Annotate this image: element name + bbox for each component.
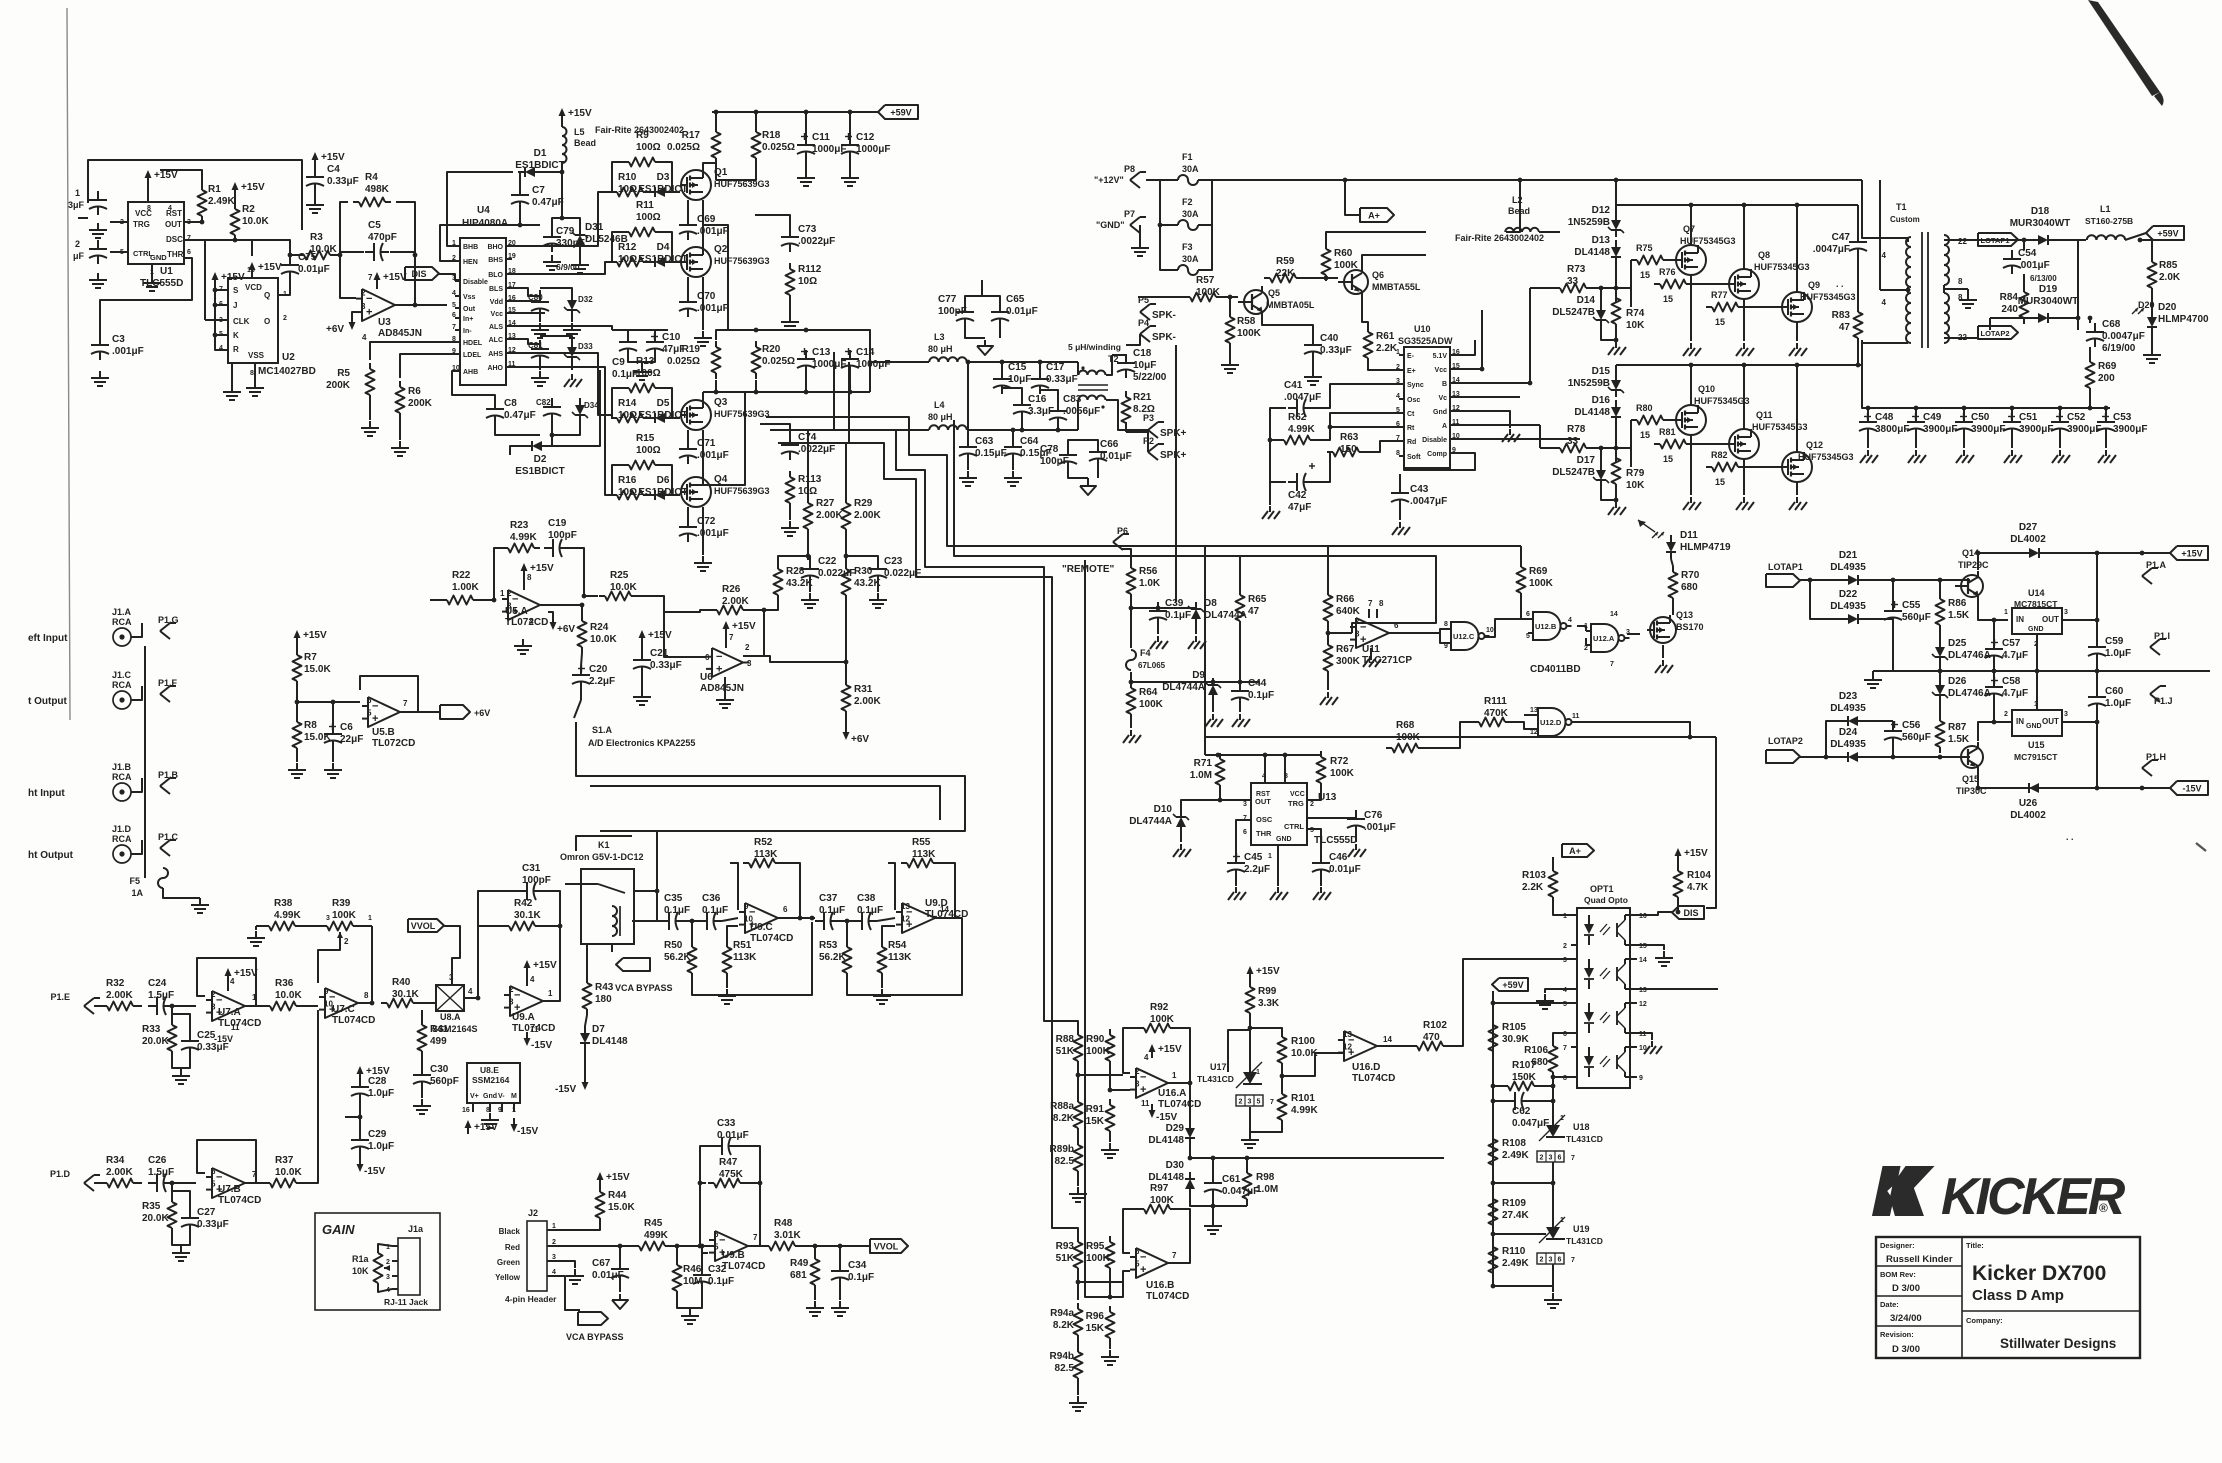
capacitor C15 10μF: [1001, 370, 1003, 379]
power -15V: [359, 1158, 361, 1169]
mosfet: [1782, 452, 1812, 482]
svg-text:U16.B: U16.B: [1146, 1280, 1174, 1291]
wire: [784, 917, 815, 919]
wire: [477, 926, 479, 998]
wire: [1637, 1033, 1652, 1040]
power +15V: [641, 633, 643, 644]
svg-text:7: 7: [1571, 1257, 1575, 1264]
svg-text:A: A: [1442, 423, 1447, 430]
wire bus S1A loop: [576, 730, 965, 831]
junction: [2095, 618, 2100, 623]
wire: [478, 891, 518, 998]
svg-text:K1: K1: [598, 840, 610, 850]
svg-text:10μF: 10μF: [1008, 374, 1031, 385]
svg-text:IN: IN: [2016, 717, 2024, 726]
svg-text:2: 2: [361, 289, 366, 298]
svg-text:.0022μF: .0022μF: [798, 236, 835, 247]
svg-text:11: 11: [1141, 1099, 1150, 1108]
ground: [551, 255, 553, 262]
diode D32: [571, 293, 573, 300]
svg-text:U12.D: U12.D: [1540, 718, 1562, 727]
junction: [338, 253, 343, 258]
wire: [1529, 288, 1531, 383]
wire: [548, 612, 553, 616]
svg-text:3900μF: 3900μF: [1923, 424, 1957, 435]
svg-text:A+: A+: [1368, 211, 1380, 221]
svg-text:R: R: [233, 345, 239, 354]
capacitor C46 0.01μF: [1320, 854, 1322, 863]
svg-text:30A: 30A: [1182, 254, 1199, 264]
capacitor C60 1.0μF: [2096, 688, 2098, 697]
svg-text:7: 7: [1368, 599, 1373, 608]
svg-text:R1a: R1a: [352, 1254, 370, 1264]
wire: [1671, 559, 1673, 566]
svg-text:ES1BDICT: ES1BDICT: [515, 466, 564, 477]
op-amp U7.B: [212, 1168, 245, 1198]
wire: [414, 255, 416, 303]
ground: [726, 989, 728, 996]
flag +59V: [2146, 226, 2184, 240]
svg-text:4: 4: [362, 333, 367, 342]
diode D8 DL4744A: [1195, 601, 1197, 603]
svg-text:VCA BYPASS: VCA BYPASS: [615, 983, 673, 993]
junction: [848, 390, 853, 395]
svg-text:®: ®: [2099, 1201, 2108, 1215]
svg-text:Vcc: Vcc: [1435, 367, 1448, 374]
wire: [1097, 467, 1099, 478]
svg-text:0.01μF: 0.01μF: [1329, 864, 1361, 875]
svg-text:.001μF: .001μF: [697, 528, 729, 539]
junction: [762, 608, 767, 613]
wire: [1975, 239, 2031, 241]
svg-text:R72: R72: [1330, 756, 1349, 767]
svg-text:DL4148: DL4148: [1574, 247, 1610, 258]
wire: [455, 307, 460, 309]
wire: [1493, 1086, 1506, 1101]
wire: [439, 274, 460, 280]
wire: [1449, 959, 1571, 1046]
svg-text:R2: R2: [242, 204, 255, 215]
svg-text:Sync: Sync: [1407, 382, 1424, 389]
svg-text:OUT: OUT: [1255, 797, 1271, 806]
wire: [1168, 1209, 1190, 1263]
capacitor C17 0.33μF: [1039, 370, 1041, 379]
svg-text:681: 681: [790, 1270, 807, 1281]
wire: [1978, 722, 1994, 741]
svg-text:P1.F: P1.F: [158, 678, 178, 688]
power +15V: [234, 185, 236, 196]
opto channel: [1571, 958, 1577, 960]
wire: [712, 111, 878, 113]
wire: [612, 329, 668, 331]
wire: [1553, 1033, 1571, 1040]
junction: [200, 220, 205, 225]
wire: [2096, 671, 2098, 688]
junction: [1551, 1075, 1556, 1080]
wire: [755, 215, 790, 228]
junction: [1188, 1081, 1193, 1086]
wire: [172, 1182, 196, 1184]
svg-text:R77: R77: [1711, 290, 1728, 300]
wire: [611, 944, 613, 952]
svg-text:1: 1: [2004, 609, 2008, 616]
wire: [1126, 432, 1148, 452]
svg-text:C18: C18: [1133, 348, 1152, 359]
svg-text:3: 3: [1355, 630, 1360, 639]
resistor R86 1.5K: [1939, 593, 1941, 599]
ground: [1399, 522, 1401, 528]
junction: [1891, 578, 1896, 583]
resistor R33 20.0K: [171, 1019, 173, 1025]
wire: [1552, 1086, 1554, 1101]
wire: [672, 417, 680, 419]
flag LOTAP1: [1978, 233, 2018, 246]
wire: [2062, 619, 2097, 621]
wire: [1109, 1344, 1111, 1349]
junction: [1824, 755, 1829, 760]
resistor R9 100Ω: [623, 161, 629, 163]
junction: [845, 919, 850, 924]
ground: [1663, 951, 1665, 958]
wire: [1493, 1182, 1553, 1184]
svg-text:2.2K: 2.2K: [1376, 343, 1398, 354]
svg-text:C73: C73: [798, 224, 817, 235]
ground: [839, 1301, 841, 1308]
svg-text:C72: C72: [697, 516, 716, 527]
svg-text:2: 2: [1540, 1257, 1544, 1264]
svg-text:0.01μF: 0.01μF: [1006, 306, 1038, 317]
wire: [1492, 1057, 1494, 1086]
wire: [1264, 755, 1266, 783]
svg-text:DL4935: DL4935: [1830, 739, 1866, 750]
capacitor C16 3.3μF: [1021, 396, 1023, 405]
wire: [1672, 604, 1674, 615]
ground: [1239, 714, 1241, 720]
wire: [1669, 259, 1675, 261]
power +15V: [1151, 1047, 1153, 1058]
junction: [1938, 755, 1943, 760]
svg-text:0.33μF: 0.33μF: [1320, 345, 1352, 356]
svg-text:+: +: [1140, 1264, 1146, 1276]
power +15V: [251, 265, 253, 276]
svg-text:-15V: -15V: [555, 1084, 576, 1095]
capacitor C19 100pF: [544, 547, 553, 549]
wire: [318, 938, 340, 983]
wire: [702, 507, 704, 555]
wire: [1615, 424, 1617, 462]
svg-text:10: 10: [324, 1000, 333, 1009]
wire: [1189, 1083, 1191, 1121]
capacitor C54 .001μF: [2011, 250, 2013, 259]
svg-text:C34: C34: [848, 1260, 867, 1271]
wire: [809, 584, 811, 592]
svg-text:TL074CD: TL074CD: [218, 1195, 261, 1206]
junction: [1211, 680, 1216, 685]
svg-text:U12.B: U12.B: [1535, 622, 1557, 631]
wire: [133, 1005, 142, 1007]
svg-text:0.1μF: 0.1μF: [1248, 690, 1274, 701]
ground: [314, 198, 316, 205]
wire: [611, 232, 613, 262]
resistor R38 4.99K: [263, 925, 269, 927]
svg-text:P7: P7: [1124, 209, 1135, 219]
wire: [1796, 322, 1798, 341]
svg-text:2: 2: [1540, 1155, 1544, 1162]
capacitor C42 47μF: [1288, 481, 1297, 483]
svg-text:R66: R66: [1336, 594, 1355, 605]
ground: [1269, 506, 1271, 512]
svg-text:F5: F5: [129, 876, 140, 886]
wire: [1892, 626, 1894, 671]
junction: [295, 700, 300, 705]
svg-text:15K: 15K: [1086, 1116, 1105, 1127]
junction: [560, 216, 565, 221]
svg-text:6: 6: [1558, 1257, 1562, 1264]
wire: [1492, 1231, 1494, 1234]
svg-text:4: 4: [1568, 617, 1572, 624]
svg-text:+15V: +15V: [221, 272, 245, 283]
svg-text:200: 200: [2098, 373, 2115, 384]
svg-text:C33: C33: [717, 1118, 736, 1129]
svg-text:A+: A+: [1569, 846, 1581, 856]
svg-text:MC14027BD: MC14027BD: [258, 366, 316, 377]
junction: [1326, 631, 1331, 636]
svg-text:1: 1: [500, 589, 505, 598]
svg-text:2.49K: 2.49K: [208, 196, 235, 207]
wire: [133, 1182, 142, 1184]
svg-text:R24: R24: [590, 622, 609, 633]
wire: [1249, 1028, 1251, 1066]
wire: [495, 424, 540, 435]
svg-text:P1.B: P1.B: [158, 770, 179, 780]
wire: [641, 675, 643, 690]
wire: [1123, 1209, 1138, 1253]
mosfet: [681, 247, 711, 277]
power +6V: [552, 616, 554, 627]
wire: [579, 252, 581, 258]
junction: [1248, 1026, 1253, 1031]
svg-text:Rt: Rt: [1407, 425, 1415, 432]
svg-text:180: 180: [595, 994, 612, 1005]
ground: [1963, 450, 1965, 456]
svg-text:100Ω: 100Ω: [636, 212, 661, 223]
svg-text:R65: R65: [1248, 594, 1267, 605]
capacitor C61 0.047μF: [1212, 1174, 1214, 1183]
wire: [1440, 633, 1446, 643]
svg-text:L4: L4: [934, 400, 945, 410]
junction: [2035, 669, 2040, 674]
wire: [331, 254, 340, 256]
svg-text:0.1μF: 0.1μF: [612, 369, 638, 380]
resistor R37 10.0K: [264, 1182, 270, 1184]
wire: [1630, 420, 1632, 467]
wire: [1553, 903, 1571, 915]
resistor R25 10.0K: [599, 595, 605, 597]
capacitor C52 3900μF: [2059, 413, 2061, 422]
wire: [78, 217, 88, 219]
resistor R78 33: [1554, 447, 1560, 449]
junction: [714, 390, 719, 395]
svg-text:R74: R74: [1626, 308, 1645, 319]
svg-text:22: 22: [1958, 237, 1967, 246]
svg-text:U17: U17: [1210, 1062, 1227, 1072]
svg-text:−: −: [719, 1235, 725, 1247]
diode D7 DL4148: [584, 1026, 586, 1033]
ground: [1212, 1219, 1214, 1226]
wire: [553, 1224, 600, 1230]
svg-text:2: 2: [386, 1259, 390, 1266]
svg-text:C20: C20: [589, 664, 608, 675]
svg-text:4: 4: [468, 987, 473, 996]
ground: [1690, 497, 1692, 503]
capacitor C72 .001μF: [687, 518, 689, 527]
junction: [1976, 786, 1981, 791]
wire: [2036, 634, 2038, 671]
wire: [1800, 579, 1841, 581]
wire: [1939, 664, 1941, 671]
svg-text:TLC271CP: TLC271CP: [1362, 655, 1412, 666]
wire: [671, 1245, 700, 1247]
wire: [1138, 296, 1184, 298]
capacitor C36 0.1μF: [698, 920, 707, 922]
power +6V: [845, 726, 847, 737]
svg-text:1: 1: [1172, 1071, 1177, 1080]
svg-text:11: 11: [530, 1025, 539, 1034]
diode D21 DL4935: [1841, 579, 1848, 581]
resistor R3 10.0K: [298, 254, 304, 256]
svg-text:Q: Q: [264, 291, 270, 300]
svg-text:In-: In-: [463, 328, 472, 335]
capacitor C55 560μF: [1892, 602, 1894, 611]
wire: [888, 863, 895, 910]
resistor R19 0.025Ω: [715, 341, 717, 347]
junction: [213, 303, 218, 308]
wire: [400, 354, 460, 378]
wire: [677, 1290, 702, 1308]
svg-text:27.4K: 27.4K: [1502, 1210, 1529, 1221]
svg-text:DL5247B: DL5247B: [1552, 307, 1595, 318]
svg-text:HIP4080A: HIP4080A: [462, 218, 508, 229]
svg-text:R96: R96: [1086, 1311, 1105, 1322]
resistor R51 113K: [726, 941, 728, 947]
wire: [1690, 205, 1692, 245]
svg-text:300K: 300K: [1336, 656, 1361, 667]
svg-text:.001μF: .001μF: [697, 303, 729, 314]
svg-text:P1.A: P1.A: [2146, 560, 2167, 570]
wire: [760, 1245, 763, 1247]
svg-text:22μF: 22μF: [340, 734, 363, 745]
svg-text:D12: D12: [1592, 205, 1611, 216]
svg-text:.001μF: .001μF: [697, 450, 729, 461]
junction: [582, 594, 587, 599]
svg-text:R55: R55: [912, 837, 931, 848]
junction: [1795, 363, 1800, 368]
resistor R106 680: [1552, 1040, 1554, 1046]
svg-text:7: 7: [729, 633, 734, 642]
svg-text:VCA BYPASS: VCA BYPASS: [566, 1332, 624, 1342]
wire R27 R29 tops: [807, 430, 809, 480]
capacitor C81: [539, 340, 541, 349]
shunt reference: [1546, 1125, 1560, 1137]
svg-text:C43: C43: [1410, 484, 1429, 495]
svg-text:C67: C67: [592, 1258, 611, 1269]
svg-text:150K: 150K: [1512, 1072, 1537, 1083]
op-amp U9.A: [510, 986, 543, 1016]
svg-text:C24: C24: [148, 978, 167, 989]
wire: [1963, 437, 1965, 448]
svg-text:C40: C40: [1320, 333, 1339, 344]
wire: [1383, 1045, 1411, 1047]
wire: [967, 362, 969, 438]
svg-text:U18: U18: [1573, 1122, 1590, 1132]
wire bus staircase 3: [778, 443, 1078, 1236]
wire: [131, 840, 142, 854]
svg-text:C19: C19: [548, 518, 567, 529]
svg-text:51K: 51K: [1056, 1046, 1075, 1057]
ground: [1355, 844, 1357, 850]
svg-text:R4: R4: [365, 172, 378, 183]
svg-text:4: 4: [1882, 251, 1887, 260]
svg-text:+15V: +15V: [2181, 549, 2202, 559]
wire: [939, 863, 955, 918]
ground: [1327, 692, 1329, 698]
svg-text:0.47μF: 0.47μF: [504, 410, 536, 421]
svg-text:R53: R53: [819, 940, 838, 951]
wire: [1552, 1162, 1554, 1183]
svg-text:Comp: Comp: [1427, 451, 1447, 458]
junction: [1891, 755, 1896, 760]
wire R65 R66 tops to bus: [1239, 556, 1241, 580]
wire: [1743, 299, 1745, 341]
svg-text:1A: 1A: [131, 888, 143, 898]
svg-text:C45: C45: [1244, 852, 1263, 863]
wire: [1857, 257, 1859, 306]
svg-text:HLMP4719: HLMP4719: [1680, 542, 1731, 553]
ground: [1915, 450, 1917, 456]
capacitor C79 330pF: [551, 228, 553, 237]
svg-text:+59V: +59V: [1502, 980, 1523, 990]
capacitor C47 .0047μF: [1857, 233, 1859, 242]
power +15V: [561, 111, 563, 122]
wire: [2096, 553, 2098, 620]
svg-text:U8.E: U8.E: [480, 1065, 499, 1075]
svg-text:U26: U26: [2019, 798, 2038, 809]
svg-text:C53: C53: [2113, 412, 2132, 423]
svg-text:C52: C52: [2067, 412, 2086, 423]
wire: [664, 612, 706, 657]
wire: [1456, 424, 1540, 426]
svg-text:U19: U19: [1573, 1224, 1590, 1234]
junction: [700, 1244, 705, 1249]
wire: [1181, 800, 1251, 810]
wire: [1456, 382, 1530, 384]
svg-text:8: 8: [1958, 277, 1963, 286]
wire: [1990, 317, 2031, 319]
wire: [1601, 327, 1616, 340]
svg-text:6: 6: [211, 1167, 216, 1176]
wire: [612, 388, 623, 418]
svg-text:MMBTA05L: MMBTA05L: [1266, 300, 1315, 310]
capacitor C21 0.33μF: [641, 651, 643, 660]
junction: [2140, 786, 2145, 791]
resistor R66 640K: [1327, 589, 1329, 595]
svg-text:.001μF: .001μF: [2018, 260, 2050, 271]
svg-text:R63: R63: [1340, 432, 1359, 443]
logo KICKER: [1872, 1166, 2126, 1226]
svg-text:HDEL: HDEL: [463, 340, 483, 347]
wire: [2089, 394, 2091, 408]
svg-text:100Ω: 100Ω: [636, 142, 661, 153]
